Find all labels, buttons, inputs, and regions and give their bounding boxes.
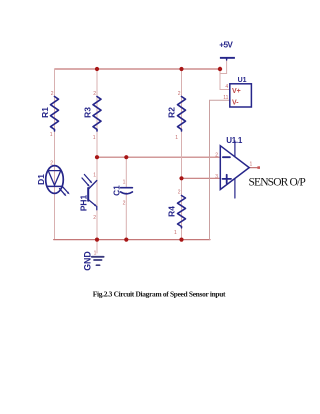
wire op-amp output — [249, 167, 258, 169]
junction node gnd — [95, 238, 99, 242]
junction node C1 bottom — [124, 238, 128, 242]
svg-text:4: 4 — [225, 84, 228, 90]
svg-text:2: 2 — [215, 152, 218, 158]
junction node top R2 — [179, 67, 183, 71]
svg-text:2: 2 — [51, 91, 54, 97]
svg-text:U1.1: U1.1 — [226, 136, 243, 145]
svg-text:Fig.2.3 Circuit Diagram of Spe: Fig.2.3 Circuit Diagram of Speed Sensor … — [93, 290, 226, 299]
wire plus input — [182, 177, 221, 179]
svg-text:U1: U1 — [238, 77, 247, 84]
capacitor C1 — [111, 180, 132, 207]
wire left column — [54, 69, 56, 240]
wire R3 column — [96, 69, 98, 157]
junction node sensor/C1 — [124, 155, 128, 159]
wire R2/R4 column — [181, 69, 183, 240]
phototransistor PH1 — [79, 173, 98, 222]
wire sensor net (minus input rail) — [97, 156, 220, 158]
svg-text:2: 2 — [178, 190, 181, 196]
junction node sensor/R3 — [95, 155, 99, 159]
resistor R2 — [167, 91, 186, 141]
svg-text:2: 2 — [93, 91, 96, 97]
svg-text:PH1: PH1 — [79, 195, 89, 212]
svg-text:3: 3 — [215, 174, 218, 180]
svg-text:2: 2 — [178, 91, 181, 97]
svg-text:R4: R4 — [167, 206, 177, 217]
op-amp U1.1 — [215, 136, 252, 198]
resistor R3 — [83, 91, 102, 141]
ground GND — [83, 251, 104, 271]
svg-text:2: 2 — [123, 201, 126, 207]
svg-text:+5V: +5V — [219, 41, 233, 50]
wire +5V feed — [220, 59, 227, 74]
wire C1 column upper — [125, 157, 127, 187]
svg-text:2: 2 — [50, 161, 53, 167]
wire GND stem — [96, 240, 98, 253]
svg-text:1: 1 — [175, 135, 178, 141]
svg-text:1: 1 — [250, 162, 253, 168]
wire V- supply — [210, 100, 231, 239]
wire PH1 column — [96, 157, 98, 239]
resistor R1 — [40, 91, 59, 138]
svg-text:C1: C1 — [111, 185, 121, 196]
svg-text:1: 1 — [123, 180, 126, 186]
wire C1 column lower — [125, 193, 127, 240]
svg-text:R3: R3 — [83, 107, 93, 118]
svg-text:GND: GND — [83, 251, 93, 271]
wire bottom rail — [54, 239, 210, 241]
power box U1 — [223, 77, 251, 107]
svg-text:1: 1 — [174, 230, 177, 236]
junction node top R3 — [95, 67, 99, 71]
svg-text:1: 1 — [50, 132, 53, 138]
wire top rail — [55, 68, 221, 70]
svg-text:1: 1 — [94, 251, 97, 257]
svg-text:1: 1 — [93, 135, 96, 141]
svg-text:11: 11 — [223, 95, 228, 101]
junction node divider mid — [179, 176, 183, 180]
svg-text:SENSOR O/P: SENSOR O/P — [249, 176, 306, 188]
power +5V — [219, 41, 235, 60]
svg-text:R2: R2 — [167, 107, 177, 118]
svg-text:1: 1 — [93, 173, 96, 179]
LED D1 — [36, 161, 70, 197]
junction node R4 bottom — [179, 238, 183, 242]
svg-text:R1: R1 — [40, 107, 50, 118]
svg-text:V-: V- — [232, 99, 239, 106]
svg-text:2: 2 — [93, 215, 96, 221]
junction node +5V — [218, 67, 222, 71]
svg-text:D1: D1 — [36, 174, 46, 185]
svg-text:V+: V+ — [232, 88, 241, 95]
resistor R4 — [167, 190, 186, 237]
